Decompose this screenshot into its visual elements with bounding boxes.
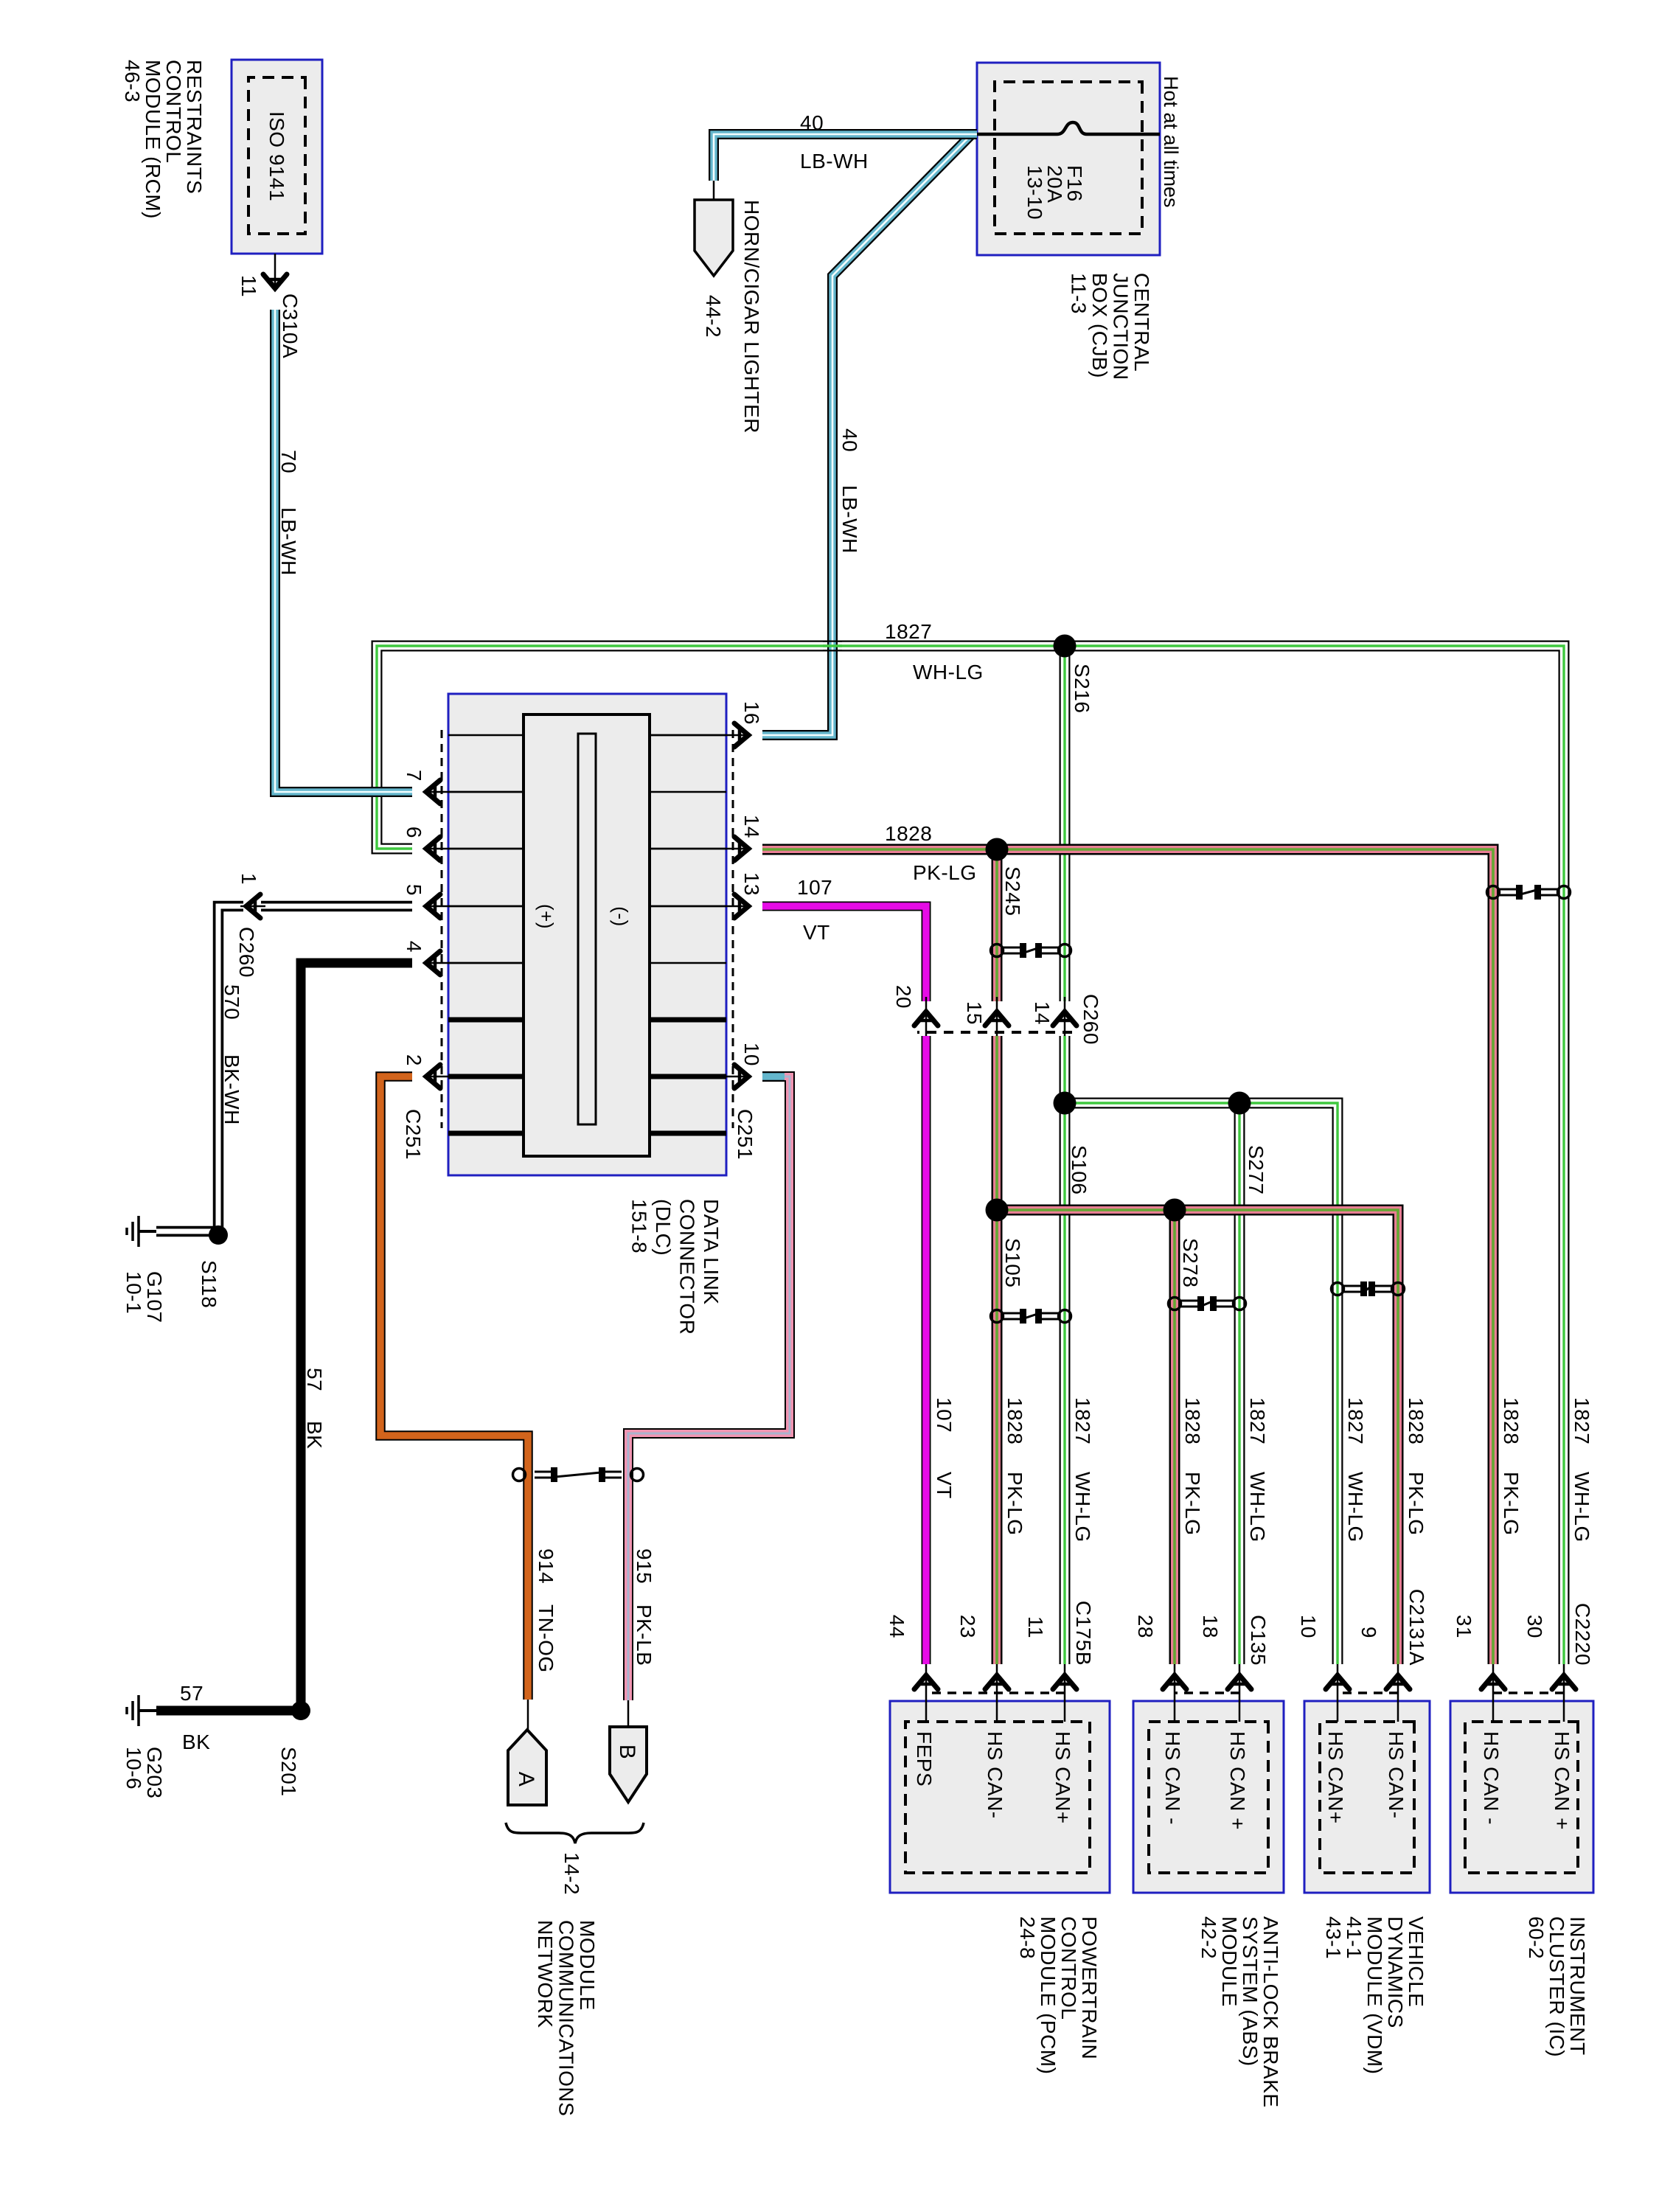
svg-text:(DLC): (DLC) xyxy=(652,1199,675,1256)
ABS connector dashed line xyxy=(1175,1691,1239,1694)
wire 1828 PK-LG S105 to VDM pin 9 xyxy=(997,1210,1398,1664)
svg-text:POWERTRAIN: POWERTRAIN xyxy=(1078,1916,1101,2059)
wire 1827 crossing overlay at 40 LB-WH xyxy=(823,641,842,651)
wire 57 BK DLC pin 4 to S201 xyxy=(301,963,412,1711)
svg-text:CONNECTOR: CONNECTOR xyxy=(676,1199,699,1335)
svg-text:107: 107 xyxy=(933,1397,956,1433)
svg-text:TN-OG: TN-OG xyxy=(535,1604,557,1673)
wire 40 LB-WH fuse to horn feed xyxy=(714,134,977,181)
svg-text:ANTI-LOCK BRAKE: ANTI-LOCK BRAKE xyxy=(1259,1916,1282,2108)
svg-text:HS CAN+: HS CAN+ xyxy=(1051,1731,1074,1824)
svg-text:LB-WH: LB-WH xyxy=(838,485,861,554)
splice S216 xyxy=(1054,635,1077,658)
svg-text:1828: 1828 xyxy=(1405,1397,1427,1444)
DLC connector body xyxy=(524,714,650,1156)
svg-text:(-): (-) xyxy=(610,906,632,926)
VDM pin 10 xyxy=(1337,1664,1339,1722)
svg-text:70: 70 xyxy=(277,450,300,473)
svg-text:C175B: C175B xyxy=(1072,1601,1095,1666)
C260 pin 15 arrow xyxy=(985,1012,1009,1026)
central junction box CJB xyxy=(977,63,1160,255)
svg-text:CONTROL: CONTROL xyxy=(162,60,185,163)
svg-text:9: 9 xyxy=(1357,1627,1380,1638)
wire 1827 WH-LG branch S216 to C260 xyxy=(1060,646,1071,1001)
DLC pin 7 xyxy=(428,791,524,793)
horn/cigar lighter feed pendant xyxy=(713,181,715,200)
splice S277 xyxy=(1228,1092,1251,1115)
svg-text:S105: S105 xyxy=(1001,1238,1024,1287)
svg-text:S245: S245 xyxy=(1001,866,1024,916)
PCM connector dashed line xyxy=(926,1691,1065,1694)
svg-text:WH-LG: WH-LG xyxy=(1246,1472,1269,1543)
svg-text:S201: S201 xyxy=(277,1747,300,1796)
svg-text:HS CAN-: HS CAN- xyxy=(1385,1731,1408,1819)
svg-text:COMMUNICATIONS: COMMUNICATIONS xyxy=(555,1920,578,2116)
svg-text:WH-LG: WH-LG xyxy=(913,661,984,684)
inline connector on 1827/1828 pair near PCM xyxy=(1059,1310,1071,1323)
svg-text:PK-LG: PK-LG xyxy=(1500,1472,1523,1536)
wire 1827 WH-LG S277 to ABS pin 18 xyxy=(1234,1103,1245,1664)
svg-text:C260: C260 xyxy=(1079,994,1102,1045)
ABS pin 28 xyxy=(1174,1664,1176,1722)
svg-text:FEPS: FEPS xyxy=(913,1731,936,1787)
svg-text:43-1: 43-1 xyxy=(1322,1916,1345,1959)
svg-text:PK-LG: PK-LG xyxy=(1181,1472,1204,1536)
svg-text:(+): (+) xyxy=(535,904,557,929)
C260 pin 1 arrow xyxy=(240,905,265,908)
svg-text:ISO 9141: ISO 9141 xyxy=(265,111,288,201)
wire 915 light blue stub at pin 10 xyxy=(762,1071,785,1082)
wire 107 VT DLC pin 13 to C260 xyxy=(762,906,926,1001)
wire 570 BK-WH DLC pin 5 to C260 pin 1 xyxy=(261,901,412,912)
svg-text:BK: BK xyxy=(182,1731,210,1753)
wire 1827 WH-LG C260 to PCM pin 11 xyxy=(1060,1036,1071,1664)
DLC pin 2 xyxy=(428,1076,524,1078)
IC connector dashed line xyxy=(1493,1691,1564,1694)
svg-text:10: 10 xyxy=(1297,1615,1320,1638)
svg-text:CONTROL: CONTROL xyxy=(1057,1916,1080,2020)
inline connector on VDM pair xyxy=(1392,1283,1405,1295)
svg-text:10-6: 10-6 xyxy=(122,1747,145,1790)
svg-text:11-3: 11-3 xyxy=(1068,273,1091,314)
splice S245 xyxy=(986,838,1009,861)
svg-text:1828: 1828 xyxy=(1004,1397,1026,1444)
svg-text:C251: C251 xyxy=(402,1109,425,1160)
svg-text:MODULE: MODULE xyxy=(1218,1916,1241,2007)
svg-text:HS CAN-: HS CAN- xyxy=(984,1731,1006,1819)
svg-text:11: 11 xyxy=(237,275,260,297)
svg-text:1827: 1827 xyxy=(1071,1397,1094,1444)
network connector A pendant xyxy=(527,1700,529,1730)
svg-text:40: 40 xyxy=(800,111,824,134)
fuse F16 20A xyxy=(977,122,1160,134)
svg-text:CENTRAL: CENTRAL xyxy=(1130,273,1153,372)
svg-text:HS CAN +: HS CAN + xyxy=(1226,1731,1249,1830)
svg-text:RESTRAINTS: RESTRAINTS xyxy=(183,60,206,194)
VDM connector dashed line xyxy=(1338,1691,1398,1694)
svg-text:Hot at all times: Hot at all times xyxy=(1160,76,1182,208)
svg-text:WH-LG: WH-LG xyxy=(1344,1472,1367,1543)
IC pin 30 C2220 xyxy=(1563,1664,1565,1722)
svg-text:57: 57 xyxy=(303,1368,326,1391)
svg-text:44-2: 44-2 xyxy=(702,295,725,338)
svg-text:16: 16 xyxy=(740,701,763,725)
svg-text:S118: S118 xyxy=(198,1260,220,1308)
wire 40 LB-WH fuse to DLC pin 16 xyxy=(762,134,972,735)
svg-text:C2131A: C2131A xyxy=(1405,1589,1428,1666)
svg-text:4: 4 xyxy=(403,941,425,953)
svg-text:PK-LG: PK-LG xyxy=(913,861,977,884)
svg-text:S278: S278 xyxy=(1179,1238,1202,1287)
C260 pin 20 arrow xyxy=(914,1012,938,1026)
splice S105 xyxy=(986,1199,1009,1222)
svg-text:MODULE (RCM): MODULE (RCM) xyxy=(142,60,164,219)
connector C260 dashed line xyxy=(917,1031,1072,1034)
svg-text:DYNAMICS: DYNAMICS xyxy=(1384,1916,1407,2028)
wire 1828 PK-LG S278 to ABS pin 28 xyxy=(1169,1210,1180,1664)
wire 57 BK S201 to ground G203 xyxy=(156,1706,304,1716)
svg-text:HS CAN +: HS CAN + xyxy=(1551,1731,1573,1830)
splice S118 xyxy=(209,1225,228,1245)
wire 914 TN-OG DLC pin 2 to connector A xyxy=(380,1077,528,1700)
wire 70 LB-WH RCM to DLC pin 7 xyxy=(275,310,412,792)
svg-text:NETWORK: NETWORK xyxy=(534,1920,557,2028)
svg-text:PK-LG: PK-LG xyxy=(1405,1472,1427,1536)
svg-text:MODULE: MODULE xyxy=(576,1920,599,2011)
svg-text:14: 14 xyxy=(740,815,763,838)
svg-text:107: 107 xyxy=(797,876,832,899)
svg-text:28: 28 xyxy=(1134,1615,1157,1638)
svg-text:C251: C251 xyxy=(734,1109,757,1160)
anti-lock brake system ABS module box xyxy=(1133,1701,1284,1893)
svg-text:1827: 1827 xyxy=(1344,1397,1367,1444)
svg-text:PK-LG: PK-LG xyxy=(1004,1472,1026,1536)
svg-text:6: 6 xyxy=(403,827,425,838)
wire 1827 WH-LG main run xyxy=(377,646,1564,1664)
wire 1828 PK-LG main run xyxy=(762,849,1493,1664)
svg-text:31: 31 xyxy=(1453,1615,1475,1638)
ground G203 xyxy=(139,1709,156,1712)
instrument cluster IC box xyxy=(1450,1701,1593,1893)
svg-text:HS CAN -: HS CAN - xyxy=(1480,1731,1503,1825)
svg-text:24-8: 24-8 xyxy=(1016,1916,1039,1959)
inline connector on IC pair xyxy=(1558,886,1571,899)
ABS pin 18 C135 xyxy=(1239,1664,1241,1722)
svg-text:2: 2 xyxy=(403,1054,425,1066)
VDM pin 9 C2131A xyxy=(1397,1664,1399,1722)
svg-text:INSTRUMENT: INSTRUMENT xyxy=(1566,1916,1589,2056)
DLC pin 6 xyxy=(428,848,524,850)
svg-text:40: 40 xyxy=(838,428,861,452)
svg-text:7: 7 xyxy=(403,770,425,782)
svg-text:WH-LG: WH-LG xyxy=(1071,1472,1094,1543)
inline connector on 1827/1828 pair near C260 xyxy=(1059,945,1071,957)
RCM pin 11 arrow and connector C310A xyxy=(274,254,276,288)
wire 1827 WH-LG S106 to VDM pin 10 xyxy=(1065,1103,1338,1664)
wire 1828 PK-LG branch S245 to C260 xyxy=(992,849,1003,1001)
svg-text:A: A xyxy=(514,1772,538,1787)
svg-text:C310A: C310A xyxy=(279,293,302,358)
svg-text:G203: G203 xyxy=(143,1747,166,1799)
vehicle dynamics module VDM box xyxy=(1304,1701,1430,1893)
restraints control module RCM box xyxy=(232,60,322,254)
svg-text:LB-WH: LB-WH xyxy=(277,507,300,576)
svg-text:MODULE (PCM): MODULE (PCM) xyxy=(1037,1916,1060,2074)
svg-text:PK-LB: PK-LB xyxy=(633,1604,655,1666)
pin link lines at C260 xyxy=(1064,997,1066,1036)
svg-text:VT: VT xyxy=(803,921,830,944)
svg-text:46-3: 46-3 xyxy=(121,60,144,102)
data link connector DLC box xyxy=(448,694,726,1175)
svg-text:HS CAN -: HS CAN - xyxy=(1161,1731,1184,1825)
svg-text:HS CAN+: HS CAN+ xyxy=(1324,1731,1347,1824)
svg-text:915: 915 xyxy=(633,1548,655,1584)
svg-text:14: 14 xyxy=(1031,1001,1054,1025)
svg-text:JUNCTION: JUNCTION xyxy=(1110,273,1133,380)
svg-text:914: 914 xyxy=(535,1548,557,1584)
svg-text:15: 15 xyxy=(963,1001,986,1025)
C260 pin 14 arrow xyxy=(1053,1012,1077,1026)
svg-text:11: 11 xyxy=(1024,1616,1047,1638)
inline connector on ABS pair xyxy=(1234,1298,1246,1310)
ground G107 xyxy=(139,1230,156,1233)
PCM pin 44 xyxy=(925,1664,928,1722)
PCM pin 23 xyxy=(996,1664,998,1722)
DLC pin 14 xyxy=(650,848,747,850)
svg-text:BK: BK xyxy=(303,1421,326,1449)
svg-text:1828: 1828 xyxy=(885,822,932,845)
svg-text:DATA LINK: DATA LINK xyxy=(700,1199,723,1305)
svg-text:14-2: 14-2 xyxy=(560,1852,583,1895)
svg-text:13-10: 13-10 xyxy=(1023,165,1046,220)
svg-text:SYSTEM (ABS): SYSTEM (ABS) xyxy=(1239,1916,1262,2067)
svg-text:44: 44 xyxy=(886,1615,908,1638)
svg-text:LB-WH: LB-WH xyxy=(800,150,869,173)
svg-text:BK-WH: BK-WH xyxy=(220,1054,243,1125)
svg-text:1: 1 xyxy=(237,873,260,885)
svg-text:23: 23 xyxy=(956,1615,979,1638)
DLC pin 16 xyxy=(650,734,747,737)
svg-text:151-8: 151-8 xyxy=(628,1199,651,1253)
DLC pin 10 xyxy=(650,1076,747,1078)
svg-text:MODULE (VDM): MODULE (VDM) xyxy=(1363,1916,1386,2074)
svg-text:C135: C135 xyxy=(1247,1615,1270,1666)
svg-text:570: 570 xyxy=(220,984,243,1020)
svg-text:57: 57 xyxy=(180,1682,204,1705)
connector C251 dashed line top xyxy=(732,730,734,1128)
svg-text:CLUSTER (IC): CLUSTER (IC) xyxy=(1545,1916,1568,2057)
wire 107 VT C260 to PCM pin 44 xyxy=(922,1036,931,1664)
connector C251 dashed line bottom xyxy=(441,730,443,1128)
svg-text:HORN/CIGAR LIGHTER: HORN/CIGAR LIGHTER xyxy=(740,200,763,434)
wire S118 to ground G107 xyxy=(156,1226,223,1237)
svg-text:1827: 1827 xyxy=(1571,1397,1593,1444)
DLC pin 13 xyxy=(650,905,747,908)
splice S278 xyxy=(1164,1199,1186,1222)
powertrain control module PCM box xyxy=(890,1701,1110,1893)
PCM pin 11 C175B xyxy=(1064,1664,1066,1722)
svg-text:42-2: 42-2 xyxy=(1197,1916,1220,1959)
splice S201 xyxy=(291,1701,310,1720)
DLC pin 4 xyxy=(428,962,524,964)
splice S106 xyxy=(1054,1092,1077,1115)
svg-text:13: 13 xyxy=(740,872,763,896)
svg-text:18: 18 xyxy=(1199,1615,1222,1638)
DLC pin row lines xyxy=(448,734,726,737)
svg-text:10: 10 xyxy=(740,1043,763,1066)
wire 570 BK-WH C260 pin 1 to S118 xyxy=(218,906,243,1235)
svg-text:S106: S106 xyxy=(1068,1145,1091,1194)
IC pin 31 xyxy=(1492,1664,1495,1722)
network connector B pendant xyxy=(627,1700,630,1727)
svg-text:VEHICLE: VEHICLE xyxy=(1405,1916,1427,2007)
svg-text:1828: 1828 xyxy=(1500,1397,1523,1444)
inline connector on 914/915 pair xyxy=(631,1469,644,1481)
svg-text:5: 5 xyxy=(403,884,425,896)
svg-text:20: 20 xyxy=(892,985,915,1009)
svg-text:41-1: 41-1 xyxy=(1343,1916,1366,1959)
wire 915 PK-LB DLC pin 10 to connector B xyxy=(628,1077,790,1700)
svg-text:B: B xyxy=(615,1745,639,1760)
svg-text:BOX (CJB): BOX (CJB) xyxy=(1088,273,1111,378)
DLC connector slot xyxy=(578,734,596,1124)
svg-text:WH-LG: WH-LG xyxy=(1571,1472,1593,1543)
svg-text:G107: G107 xyxy=(143,1271,166,1324)
svg-text:30: 30 xyxy=(1523,1615,1546,1638)
svg-text:10-1: 10-1 xyxy=(122,1271,145,1314)
wire 1828 PK-LG C260 to PCM pin 23 xyxy=(992,1036,1003,1664)
svg-text:S277: S277 xyxy=(1245,1145,1267,1194)
svg-text:1828: 1828 xyxy=(1181,1397,1204,1444)
brace 14-2 xyxy=(506,1823,644,1843)
svg-text:S216: S216 xyxy=(1071,664,1093,713)
svg-text:VT: VT xyxy=(933,1472,956,1499)
svg-text:C260: C260 xyxy=(235,927,258,978)
svg-text:60-2: 60-2 xyxy=(1525,1916,1548,1959)
DLC pin 5 xyxy=(428,905,524,908)
svg-text:1827: 1827 xyxy=(1246,1397,1269,1444)
svg-text:1827: 1827 xyxy=(885,620,932,643)
svg-text:C2220: C2220 xyxy=(1571,1603,1594,1666)
